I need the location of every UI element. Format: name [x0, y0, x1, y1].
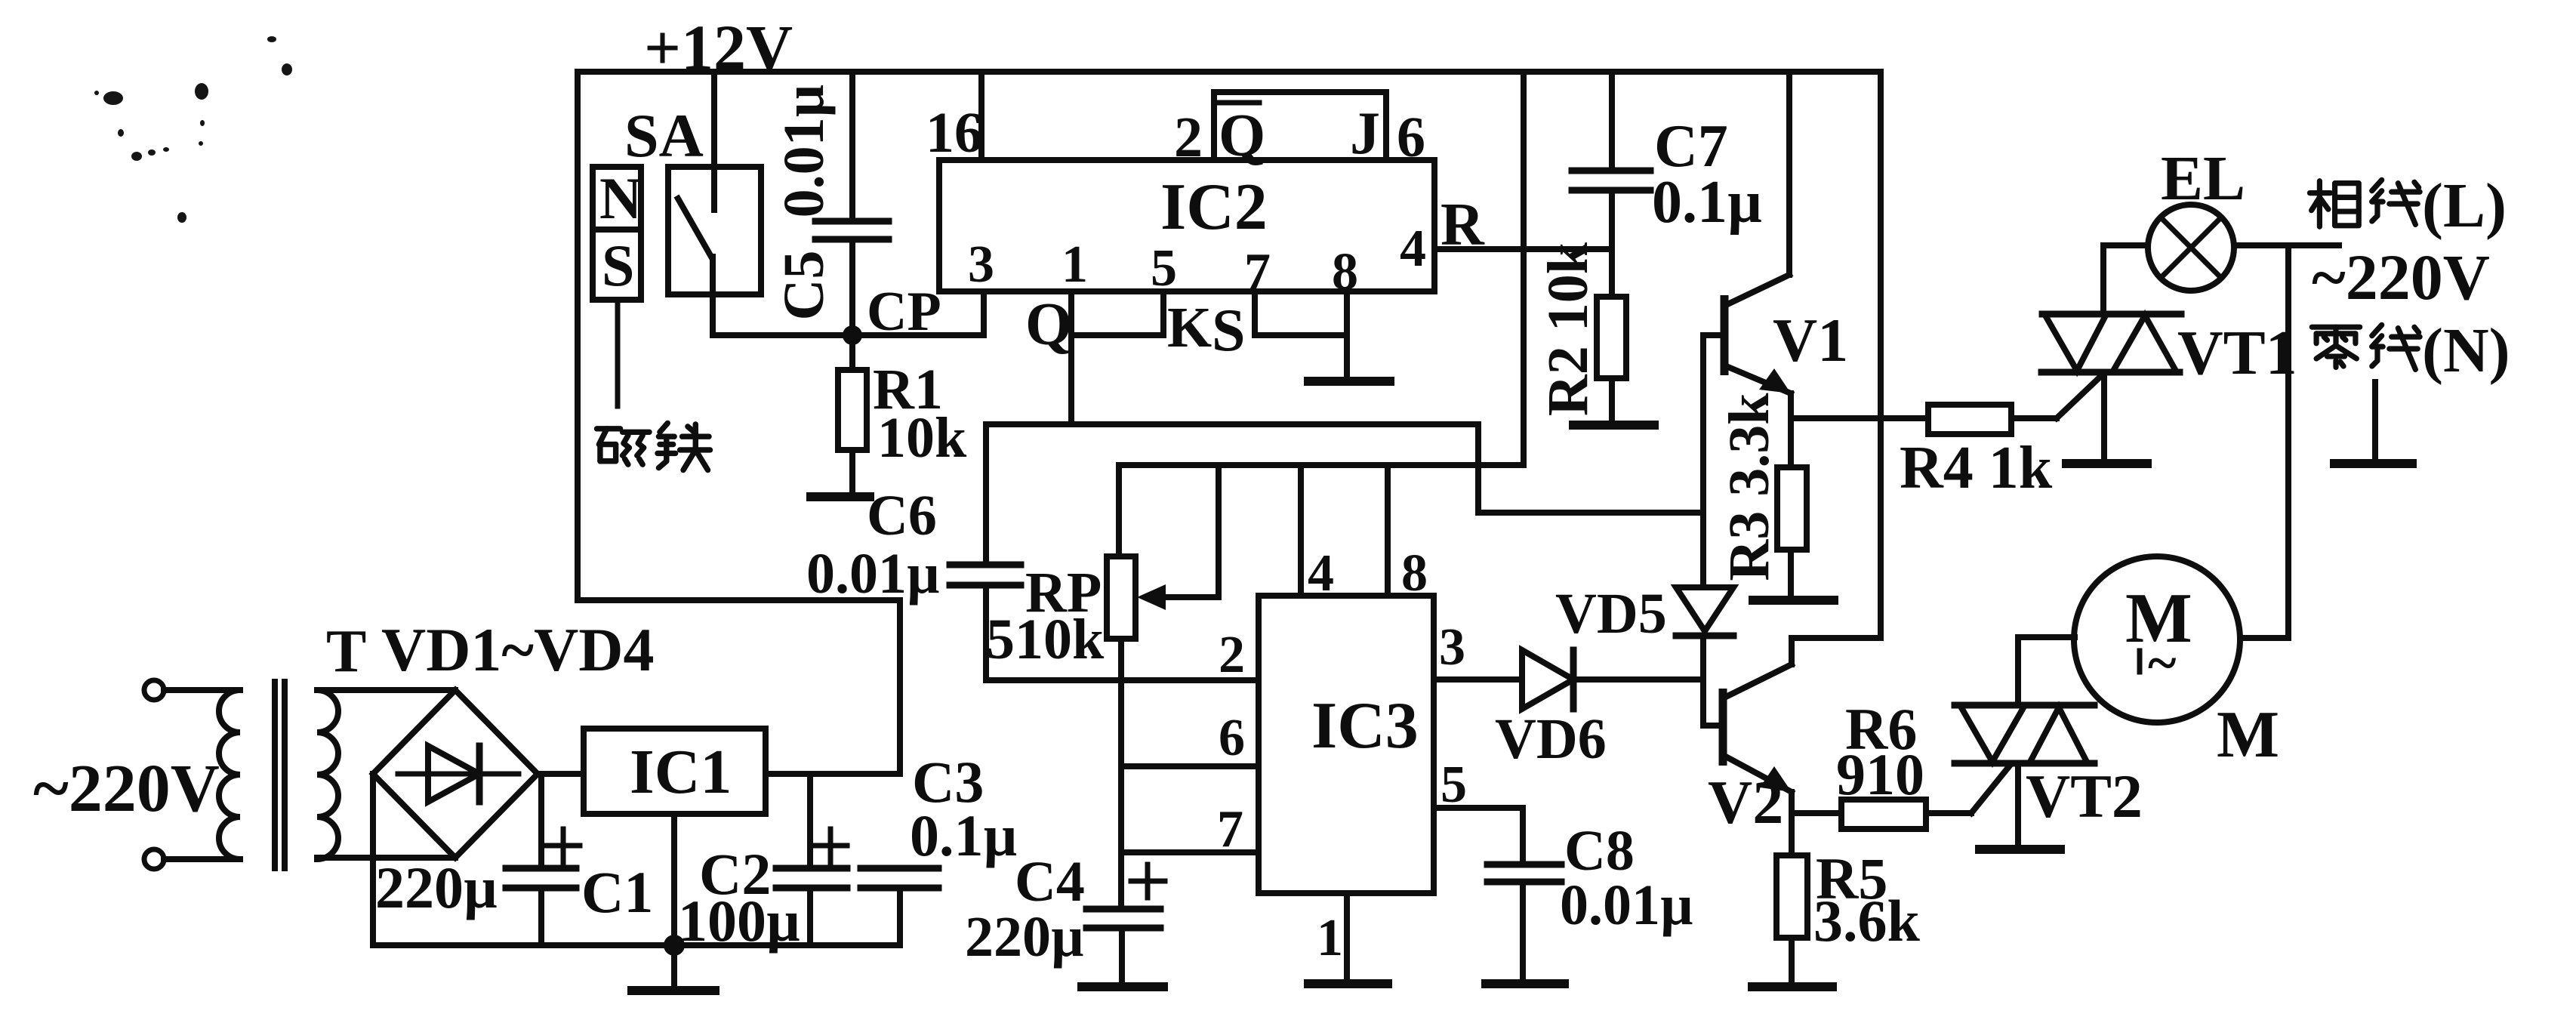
svg-text:C1: C1 — [581, 859, 653, 925]
pin 3 stub — [981, 291, 987, 335]
wire (IC1 ground lead) — [671, 814, 677, 945]
pin S label — [1212, 297, 1246, 364]
pin 6 label — [1397, 106, 1425, 169]
ground (below R5) — [1752, 982, 1832, 991]
svg-text:K: K — [1167, 296, 1212, 359]
ground (main 0V) — [632, 945, 715, 991]
wire (bridge plus to IC1) — [538, 771, 584, 777]
svg-text:S: S — [602, 233, 634, 298]
resistor R2 — [1597, 297, 1626, 423]
svg-text:0.1µ: 0.1µ — [910, 803, 1017, 868]
svg-text:910: 910 — [1836, 741, 1924, 807]
resistor R6 — [1792, 766, 2010, 829]
pin 3 label (IC3) — [1439, 618, 1465, 676]
svg-text:Q: Q — [1219, 103, 1265, 169]
wire (magnet stub) — [615, 300, 621, 406]
svg-text:V2: V2 — [1708, 768, 1783, 837]
svg-text:VT1: VT1 — [2177, 318, 2297, 388]
VD5 label — [1555, 582, 1667, 646]
svg-text:(N): (N) — [2422, 316, 2510, 386]
svg-text:T: T — [326, 618, 366, 685]
svg-text:IC2: IC2 — [1160, 171, 1268, 244]
svg-text:+12V: +12V — [644, 11, 793, 84]
IC U2 (IC2) — [939, 160, 1434, 291]
pin 2 label — [1174, 106, 1203, 169]
resistor R1 — [838, 335, 867, 495]
wire (pin2 Qbar to pin6 J loop) — [1214, 92, 1386, 160]
ground (below R2) — [1573, 421, 1654, 430]
svg-text:R: R — [1441, 192, 1485, 258]
svg-text:J: J — [1350, 100, 1380, 167]
ground (below VT1) — [2066, 459, 2147, 468]
svg-text:0.01µ: 0.01µ — [1560, 874, 1693, 937]
svg-text:6: 6 — [1397, 106, 1425, 169]
C8 labels — [1560, 819, 1693, 937]
pin Qbar label — [1217, 103, 1265, 169]
pin K label — [1167, 296, 1212, 359]
svg-text:EL: EL — [2161, 143, 2245, 214]
+12V label — [644, 11, 793, 84]
resistor R5 — [1776, 855, 1807, 985]
svg-text:VD1~VD4: VD1~VD4 — [381, 615, 655, 684]
pin 6 label (IC3) — [1219, 709, 1245, 767]
pin 8 label (IC3) — [1401, 544, 1428, 602]
svg-text:7: 7 — [1217, 800, 1243, 858]
svg-text:4: 4 — [1400, 220, 1426, 278]
pin 1 stub (Q output) — [1068, 291, 1074, 424]
label 相线(L) — [2309, 171, 2507, 241]
svg-text:16: 16 — [926, 101, 983, 165]
ground (neutral line) — [2334, 382, 2412, 464]
pin 8 stub — [1344, 291, 1350, 379]
svg-text:N: N — [599, 165, 642, 231]
svg-text:8: 8 — [1332, 243, 1358, 301]
V2 label — [1708, 768, 1783, 837]
VD1~VD4 label — [381, 615, 655, 684]
pin 5 label — [1151, 239, 1177, 297]
transformer T — [219, 682, 338, 868]
V1 label — [1773, 306, 1848, 374]
VT1 label — [2177, 318, 2297, 388]
node (0V junction) — [664, 935, 685, 956]
svg-text:5: 5 — [1151, 239, 1177, 297]
pin 16 stub — [978, 72, 984, 160]
pin J label — [1350, 100, 1380, 167]
net +12V rail — [578, 69, 1881, 75]
svg-text:1: 1 — [1317, 909, 1343, 967]
wire (IC3 pin 3 output) — [1434, 676, 1522, 683]
capacitor C8 — [1487, 864, 1561, 981]
wire (pin 5 branch) — [1434, 808, 1523, 863]
wire (pin 2 line) — [986, 677, 1259, 683]
svg-text:6: 6 — [1219, 709, 1245, 767]
wire K (pin5 to Q line) — [1071, 332, 1163, 338]
svg-text:VT2: VT2 — [2026, 762, 2143, 830]
IC U1 (IC1 regulator) — [584, 729, 766, 814]
svg-text:220µ: 220µ — [965, 905, 1084, 969]
svg-text:CP: CP — [867, 281, 941, 343]
svg-text:R2 10k: R2 10k — [1536, 242, 1600, 416]
lamp EL — [2103, 205, 2339, 291]
R2 label (rotated) — [1536, 242, 1600, 416]
svg-text:R4 1k: R4 1k — [1900, 435, 2053, 501]
svg-text:VD5: VD5 — [1555, 582, 1667, 646]
svg-text:220µ: 220µ — [375, 855, 498, 920]
pin 7 label (IC3) — [1217, 800, 1243, 858]
svg-text:~220V: ~220V — [33, 751, 220, 826]
R6 labels — [1836, 696, 1924, 807]
ground (below R1) — [811, 492, 870, 501]
svg-text:~220V: ~220V — [2312, 241, 2490, 313]
terminal (~220V top) — [144, 680, 240, 700]
svg-text:Q: Q — [1025, 291, 1072, 358]
triac VT1 — [2041, 245, 2181, 461]
pin 7 label — [1244, 243, 1271, 301]
transistor V2 — [1703, 72, 1881, 855]
C1 labels — [375, 855, 653, 925]
wire (pin 6 branch) — [1121, 763, 1259, 769]
C7 labels — [1652, 113, 1762, 236]
capacitor C6 — [950, 424, 1021, 680]
diode VD6 — [1522, 650, 1703, 709]
pin 5 label (IC3) — [1441, 756, 1467, 814]
svg-text:7: 7 — [1244, 243, 1271, 301]
diode VD5 — [1676, 513, 1733, 726]
ground (below C8) — [1486, 979, 1564, 988]
C2 labels — [678, 841, 800, 954]
M label — [2217, 698, 2279, 772]
svg-text:0.1µ: 0.1µ — [1652, 169, 1762, 236]
ground (below VT2) — [1980, 845, 2060, 854]
VT2 label — [2026, 762, 2143, 830]
pin 1 label — [1062, 236, 1088, 294]
svg-text:S: S — [1212, 297, 1246, 364]
svg-text:10k: 10k — [877, 406, 967, 470]
wire (+12V feed to RP and IC3 pins 4,8) — [1119, 72, 1524, 465]
svg-text:3: 3 — [968, 236, 994, 294]
pin 2 label (IC3) — [1219, 626, 1245, 684]
pin 4 label — [1400, 220, 1426, 278]
C5 ref label — [772, 251, 836, 321]
svg-text:VD6: VD6 — [1495, 707, 1607, 771]
pin 5 stub — [1160, 291, 1166, 335]
svg-text:IC3: IC3 — [1311, 689, 1419, 763]
pin 3 label — [968, 236, 994, 294]
wire (secondary to bridge) — [317, 690, 455, 858]
svg-text:510k: 510k — [986, 608, 1105, 671]
R5 labels — [1813, 846, 1921, 954]
svg-text:SA: SA — [624, 101, 704, 170]
capacitor C4 (electrolytic) — [1086, 864, 1165, 985]
ground (below IC3 pin 1) — [1308, 979, 1388, 988]
capacitor C7 — [1572, 72, 1650, 297]
svg-text:2: 2 — [1174, 106, 1203, 169]
ground (below IC2 pin 8) — [1308, 377, 1390, 386]
pin 1 label (IC3) — [1317, 909, 1343, 967]
svg-text:IC1: IC1 — [630, 737, 732, 807]
wire (Q output run) — [986, 424, 1703, 513]
R3 label (rotated) — [1718, 393, 1781, 581]
magnet N-S — [593, 165, 642, 300]
label 磁铁 (magnet) — [596, 423, 710, 470]
triac VT2 — [1955, 637, 2094, 847]
wire (left supply path from IC1 output up to +12V rail) — [578, 72, 900, 774]
wire (IC1 output) — [766, 771, 900, 777]
svg-text:~: ~ — [2148, 633, 2176, 693]
C5 value label 0.01µ — [772, 85, 836, 218]
svg-text:(L): (L) — [2422, 171, 2507, 241]
svg-text:3.6k: 3.6k — [1813, 888, 1921, 954]
pin Q label — [1025, 291, 1072, 358]
reed switch SA — [624, 72, 761, 335]
svg-text:1: 1 — [1062, 236, 1088, 294]
pin 16 label — [926, 101, 983, 165]
svg-text:M: M — [2217, 698, 2279, 772]
pin 8 label — [1332, 243, 1358, 301]
RP labels — [986, 561, 1105, 671]
potentiometer RP — [1107, 465, 1219, 639]
C3 labels — [910, 749, 1017, 868]
capacitor C1 (electrolytic) — [506, 774, 580, 945]
label 零线(N) — [2312, 316, 2510, 386]
wire (timing node vertical to C4) — [1118, 639, 1124, 908]
svg-text:100µ: 100µ — [678, 888, 800, 954]
capacitor C3 — [861, 868, 938, 945]
svg-text:5: 5 — [1441, 756, 1467, 814]
IC3 pin 4 stub — [1298, 465, 1304, 596]
svg-text:R3 3.3k: R3 3.3k — [1718, 393, 1781, 581]
wire CP (switch to IC2 pin 3) — [713, 332, 984, 338]
EL label — [2161, 143, 2245, 214]
pin 4 label (IC3) — [1308, 544, 1334, 602]
svg-text:C5: C5 — [772, 251, 836, 321]
capacitor C5 — [815, 72, 889, 335]
motor M — [2074, 556, 2240, 723]
svg-text:0.01µ: 0.01µ — [772, 85, 836, 218]
wire (L line down to motor) — [2240, 245, 2288, 638]
ground (below C4) — [1082, 982, 1163, 991]
C6 labels — [806, 484, 940, 606]
wire S (pin7 to pin8) — [1255, 332, 1347, 338]
wire (pin 7 branch) — [1121, 849, 1259, 855]
resistor R3 — [1777, 467, 1807, 598]
wire (VT2 to motor) — [2018, 634, 2075, 640]
VD6 label — [1495, 707, 1607, 771]
capacitor C2 (electrolytic) — [776, 774, 847, 945]
T label — [326, 618, 366, 685]
bridge rectifier VD1~VD4 — [373, 690, 538, 858]
svg-text:0.01µ: 0.01µ — [806, 542, 940, 606]
svg-text:V1: V1 — [1773, 306, 1848, 374]
wire (bridge minus to 0V rail) — [373, 774, 900, 945]
wire R (IC2 pin4 to R2/C7) — [1434, 246, 1612, 252]
C4 labels — [965, 850, 1085, 969]
terminal (~220V bottom) — [144, 849, 240, 869]
svg-text:3: 3 — [1439, 618, 1465, 676]
svg-text:2: 2 — [1219, 626, 1245, 684]
svg-text:C4: C4 — [1015, 850, 1085, 914]
svg-text:C6: C6 — [867, 484, 937, 547]
label ~220V — [2312, 241, 2490, 313]
label ~220V (mains input) — [33, 751, 220, 826]
pin 7 stub — [1252, 291, 1258, 335]
IC3 pin 1 stub — [1344, 893, 1350, 981]
IC3 pin 8 stub — [1385, 465, 1391, 596]
transistor V1 — [1703, 72, 1791, 513]
node CP — [843, 281, 941, 345]
resistor R4 — [1791, 375, 2102, 434]
pin R label — [1441, 192, 1485, 258]
IC U3 (IC3) — [1259, 596, 1434, 893]
R1 labels — [873, 358, 967, 470]
R4 label — [1900, 435, 2053, 501]
ground (below R3) — [1753, 596, 1834, 605]
